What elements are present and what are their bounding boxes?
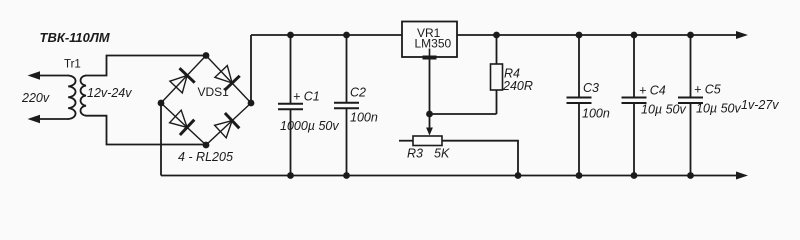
output arrow ground	[736, 172, 748, 180]
svg-text:10µ 50v: 10µ 50v	[641, 103, 686, 117]
wire positive rail right section	[457, 34, 738, 36]
capacitor C4 leads	[633, 35, 635, 97]
transformer Tr1 primary winding	[68, 76, 75, 120]
node C5 top	[687, 32, 694, 39]
potentiometer R3 body	[413, 136, 442, 146]
svg-text:+ C4: + C4	[639, 84, 666, 98]
svg-text:C2: C2	[350, 86, 366, 100]
svg-text:LM350: LM350	[415, 37, 452, 51]
svg-text:5K: 5K	[434, 147, 450, 161]
svg-text:100n: 100n	[350, 111, 378, 125]
node R3 ground	[515, 172, 522, 179]
capacitor C1 plates	[278, 103, 303, 105]
capacitor C2 leads	[346, 35, 348, 103]
svg-text:C3: C3	[583, 81, 599, 95]
svg-text:ТВК-110ЛМ: ТВК-110ЛМ	[40, 30, 111, 45]
wire bridge right corner up to positive rail	[250, 35, 252, 103]
svg-text:VDS1: VDS1	[198, 85, 230, 99]
wire positive rail left section	[251, 34, 402, 36]
node C3 top	[576, 32, 583, 39]
capacitor C2 plates	[334, 102, 359, 104]
bridge rectifier VDS1 diamond edges	[161, 56, 251, 146]
svg-text:4 - RL205: 4 - RL205	[178, 150, 233, 164]
input arrow bottom	[28, 115, 41, 123]
node C4 bottom	[631, 172, 638, 179]
node C2 top	[343, 32, 350, 39]
potentiometer R3 wiper wire	[429, 114, 431, 129]
wire bridge left corner down to ground rail	[160, 103, 162, 176]
wire secondary top to bridge top corner	[86, 56, 207, 76]
node C2 bottom	[343, 172, 350, 179]
svg-text:100n: 100n	[582, 107, 610, 121]
diode D2 (top to right)	[215, 66, 240, 91]
node C5 bottom	[687, 172, 694, 179]
node bridge right corner	[248, 100, 255, 107]
svg-text:Tr1: Tr1	[64, 59, 81, 71]
capacitor C1 leads	[290, 35, 292, 103]
input wire top 220v	[32, 75, 69, 77]
resistor R4 leads	[496, 35, 498, 64]
node bridge top corner	[203, 52, 210, 59]
node bridge bottom corner	[203, 142, 210, 149]
R3 left lead	[399, 140, 413, 142]
input wire bottom 220v	[32, 118, 69, 120]
node C1 bottom	[287, 172, 294, 179]
input arrow top	[28, 71, 41, 79]
node C1 top	[287, 32, 294, 39]
svg-text:1v-27v: 1v-27v	[741, 98, 779, 112]
regulator U VR1 box	[402, 22, 457, 58]
svg-text:1000µ 50v: 1000µ 50v	[280, 119, 339, 133]
VR1 adjust pin tab	[429, 49, 431, 56]
resistor R4 body	[491, 64, 503, 90]
capacitor C5 leads	[690, 35, 692, 97]
capacitor C4 plates	[622, 97, 647, 99]
node R4 top	[493, 32, 500, 39]
svg-text:220v: 220v	[21, 91, 50, 105]
svg-text:+ C1: + C1	[293, 90, 320, 104]
diode D3 (left to bottom)	[170, 110, 195, 135]
svg-text:12v-24v: 12v-24v	[87, 86, 132, 100]
capacitor C3 leads	[578, 35, 580, 97]
wire secondary bottom to bridge bottom corner	[86, 116, 207, 145]
capacitor C5 plates	[678, 97, 703, 99]
wire ground rail	[161, 175, 738, 177]
svg-text:R3: R3	[407, 147, 423, 161]
diode D1 (left to top)	[170, 68, 195, 93]
node C3 bottom	[576, 172, 583, 179]
node C4 top	[631, 32, 638, 39]
node bridge left corner	[158, 100, 165, 107]
R3 right lead	[442, 141, 518, 176]
output arrow positive	[736, 31, 748, 39]
wire VR1 adjust down	[429, 57, 431, 114]
wire R4 bottom to adjust node	[430, 113, 497, 115]
svg-text:10µ 50v: 10µ 50v	[696, 102, 741, 116]
svg-text:240R: 240R	[502, 79, 533, 93]
capacitor C3 plates	[567, 97, 592, 99]
potentiometer R3 wiper arrow	[426, 128, 433, 136]
svg-text:+ C5: + C5	[694, 83, 721, 97]
node adjust junction	[426, 111, 433, 118]
transformer Tr1 secondary winding	[81, 76, 86, 116]
diode D4 (bottom to right)	[215, 113, 240, 138]
